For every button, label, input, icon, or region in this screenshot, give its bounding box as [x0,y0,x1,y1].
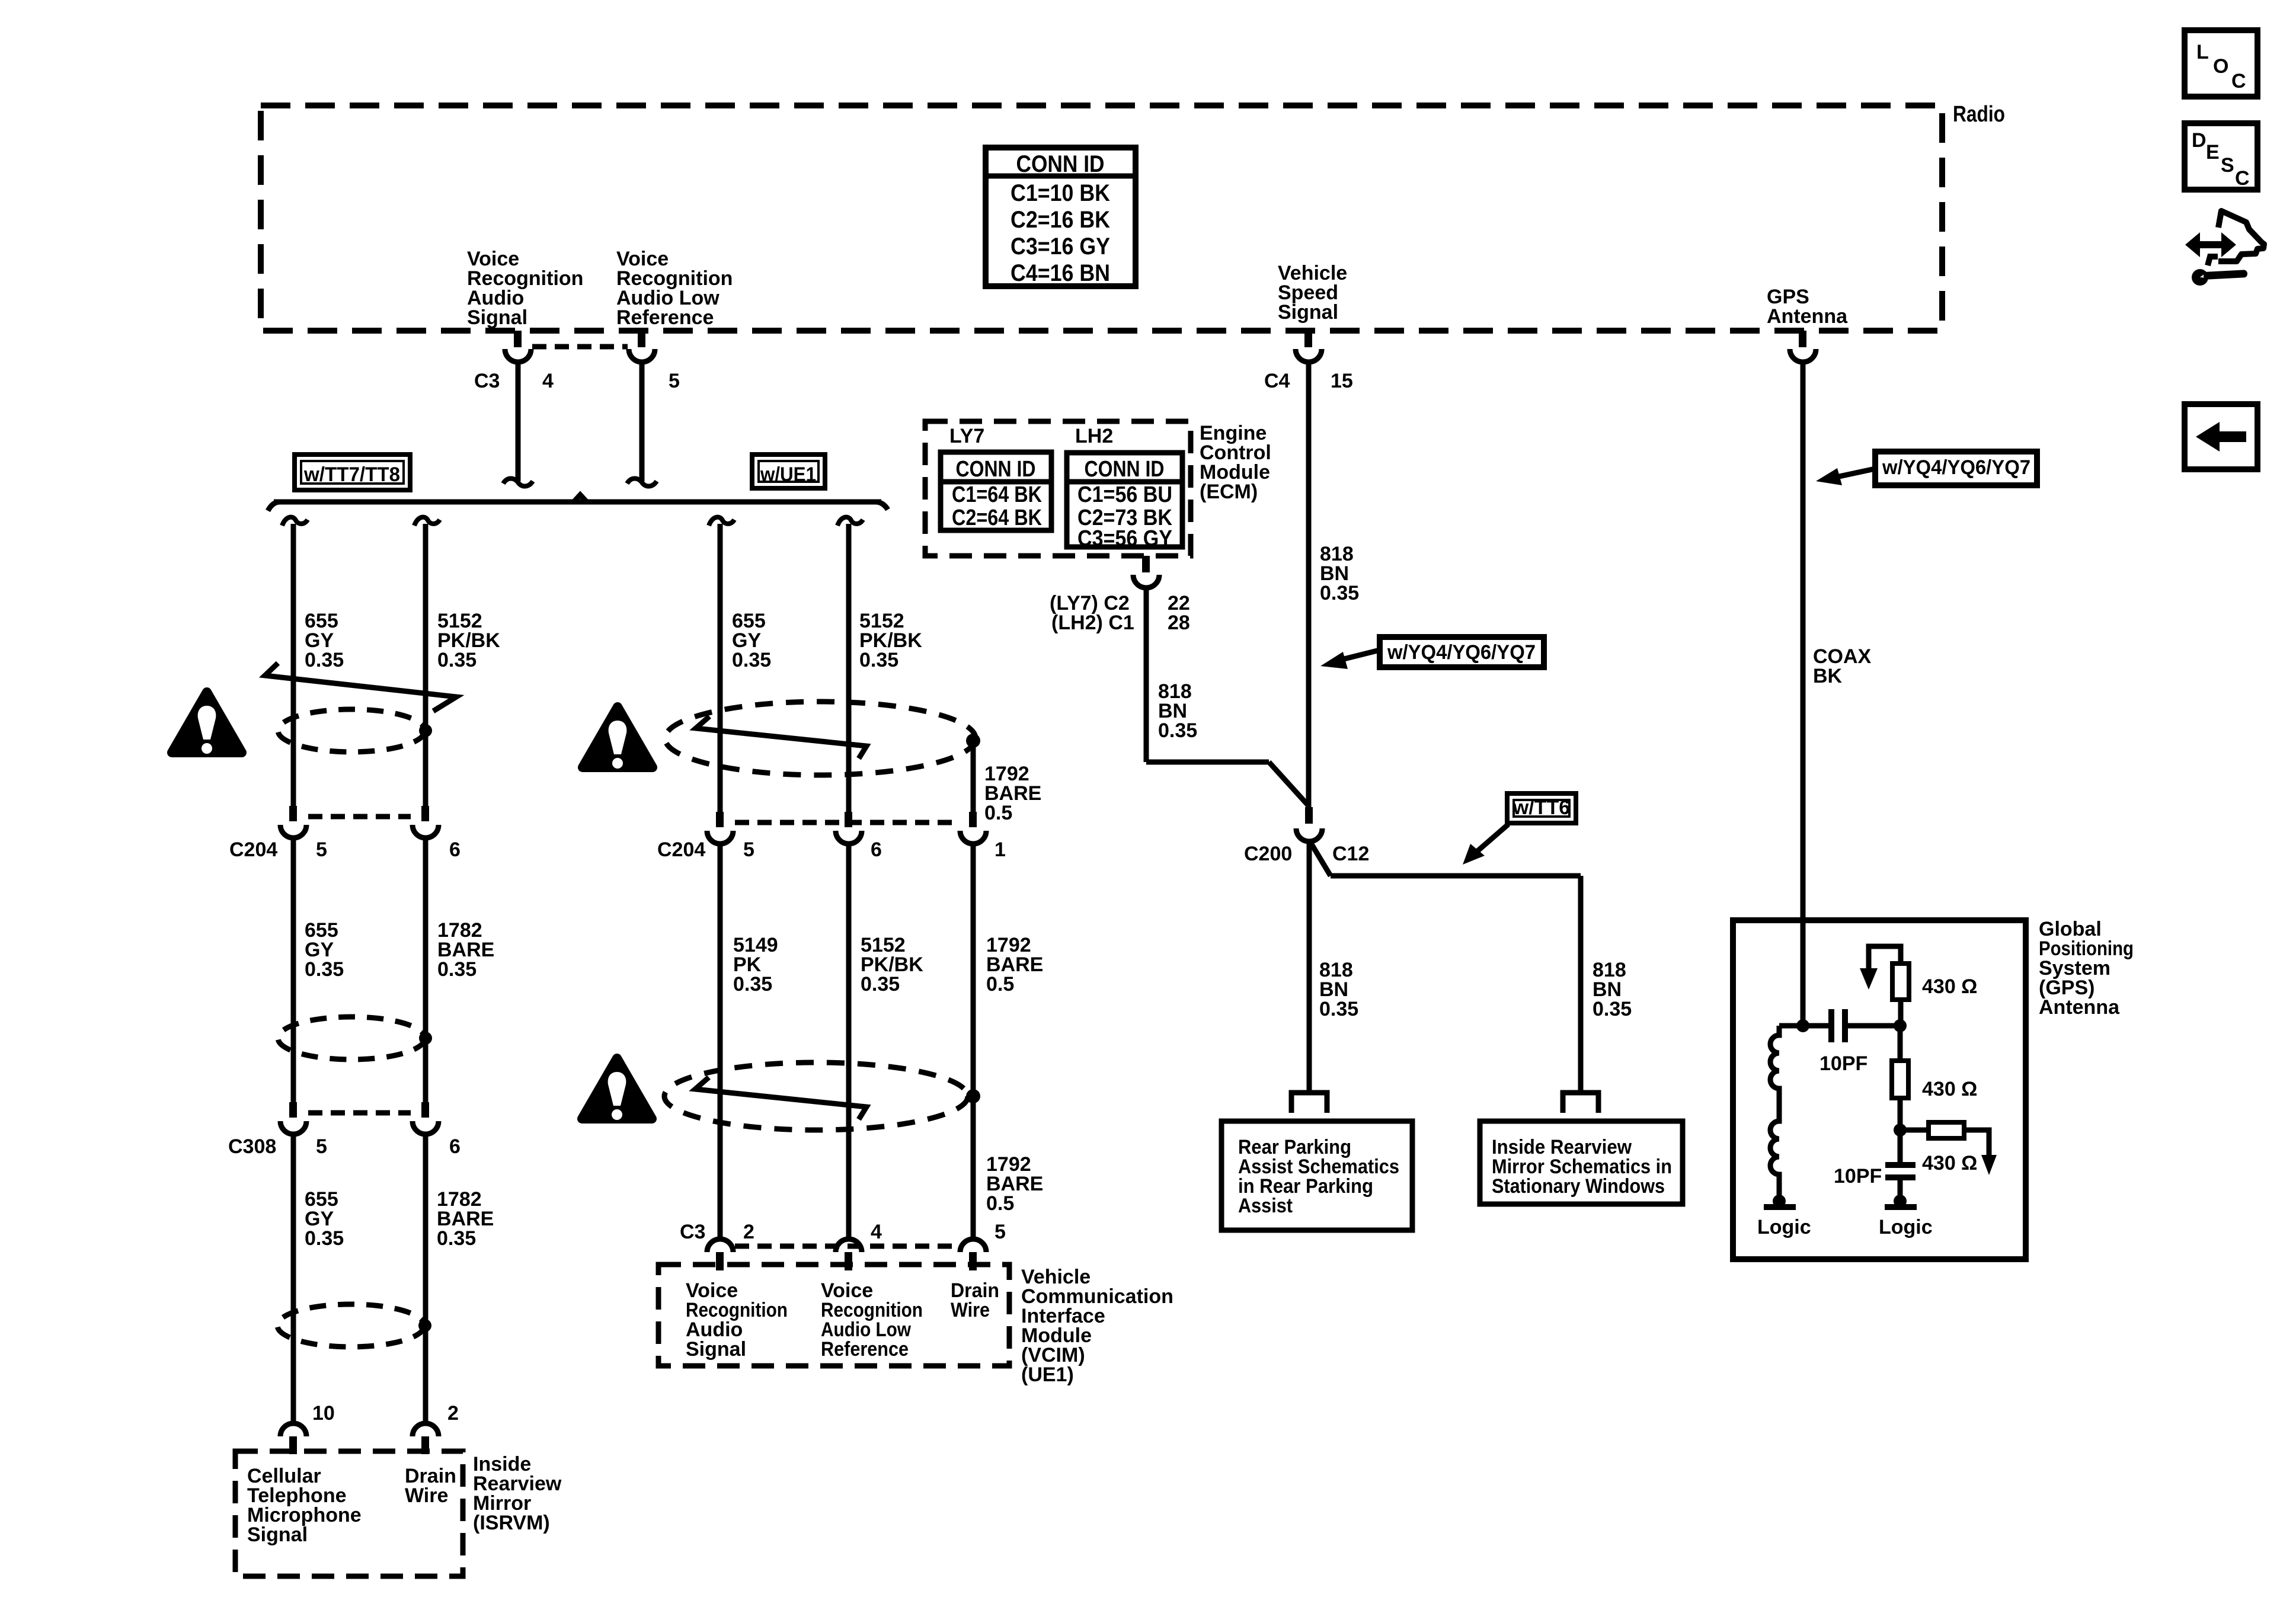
component Radio (dashed outline box) [261,105,1942,331]
svg-text:0.35: 0.35 [305,1227,344,1250]
junction dot node 2 [1894,1124,1907,1137]
svg-text:0.35: 0.35 [732,649,771,671]
ground Logic (left) [1764,1195,1796,1208]
svg-text:C3: C3 [474,370,500,392]
CONN ID table (Radio) [986,148,1136,286]
wire 1792 BARE segment C204..C3 [971,844,976,1239]
svg-text:D: D [2192,129,2207,152]
connector pin VCIM C3-4 [836,1239,862,1270]
svg-text:Signal: Signal [247,1523,308,1546]
dashed link VCIM C3 pins [735,1244,958,1249]
svg-text:w/TT6: w/TT6 [1512,796,1570,819]
svg-text:C: C [2235,167,2250,190]
pigtail hook at top of wire 655 GY (left) [282,517,308,526]
wire 655 GY segment radio..C204 (mid) [718,524,723,813]
svg-text:430 Ω: 430 Ω [1922,975,1977,998]
svg-text:(LH2) C1: (LH2) C1 [1051,612,1134,634]
connector pin ISRVM 10 [280,1423,306,1454]
svg-text:0.35: 0.35 [1593,998,1632,1020]
shield ellipse 2 (dashed) [278,1017,425,1060]
connector C200 C12 [1296,807,1322,841]
wire ECM diagonal to C200 junction [1269,762,1309,806]
harness option box w/UE1 [752,454,825,488]
svg-text:Reference: Reference [821,1338,909,1361]
svg-text:10PF: 10PF [1819,1052,1868,1075]
svg-text:0.35: 0.35 [1158,719,1197,742]
connector pin ECM C2/C1 [1133,556,1159,588]
connector C204 (mid) pin 5 [707,812,733,844]
resistor R2 430 ohm (vertical) [1892,1026,1908,1130]
wire 818 BN from ECM pin down [1144,587,1149,762]
connector C308 pin 6 [412,1102,439,1134]
component Global Positioning System GPS Antenna (box) [1733,920,2026,1259]
svg-text:BK: BK [1813,665,1843,687]
dashed link C204 mid [735,820,958,825]
svg-text:w/TT7/TT8: w/TT7/TT8 [303,463,400,486]
svg-text:0.35: 0.35 [861,973,900,996]
svg-text:CONN ID: CONN ID [956,457,1036,482]
svg-text:Radio: Radio [1953,102,2005,127]
wire radio pin5 down [639,362,645,481]
svg-text:Assist: Assist [1238,1195,1293,1217]
connector C308 pin 5 [280,1102,306,1134]
svg-text:C1=10 BK: C1=10 BK [1011,180,1110,206]
svg-text:C12: C12 [1332,843,1369,865]
junction dot on drain wire 1792 at ellipse 4 [966,734,980,748]
wire 5152 PK/BK segment radio..C204 (mid) [846,524,852,813]
component Inside Rearview Mirror ISRVM (dashed box) [235,1451,463,1576]
twisted-pair zigzag arrow 1 [265,663,456,711]
connector pin VCIM C3-2 [707,1239,733,1270]
shield ellipse 1 (dashed) [278,709,425,752]
svg-text:Signal: Signal [686,1338,746,1361]
svg-text:Antenna: Antenna [2039,996,2120,1019]
svg-text:C: C [2231,70,2246,92]
harness option box w/YQ4/YQ6/YQ7 (GPS) [1875,452,2037,485]
harness option box w/TT7/TT8 [295,454,410,490]
icon body-repair (double arrow, outline, wrench) [2185,211,2264,286]
svg-text:Logic: Logic [1757,1216,1811,1238]
connector pin radio C3 pin 5 [629,331,655,362]
svg-text:0.35: 0.35 [437,649,477,671]
connector pin radio C3 pin 4 [505,331,531,362]
junction dot on drain wire 1792 at ellipse 5 [966,1089,980,1103]
svg-text:(UE1): (UE1) [1021,1363,1074,1386]
svg-text:0.35: 0.35 [437,958,477,981]
wire radio pin4 down [516,362,521,481]
CONN ID table LH2 [1067,453,1182,551]
svg-text:C308: C308 [228,1135,276,1158]
component box Inside Rearview Mirror Schematics [1480,1121,1683,1204]
svg-text:LY7: LY7 [949,425,984,447]
svg-text:w/YQ4/YQ6/YQ7: w/YQ4/YQ6/YQ7 [1387,641,1536,664]
capacitor C2 10PF plates [1885,1165,1916,1177]
component Vehicle Communication Interface Module VCIM (dashed box) [658,1265,1009,1366]
junction dot on drain wire at ellipse 1 [419,724,432,737]
CONN ID table LY7 [941,452,1051,530]
ground Logic (right) [1885,1195,1917,1208]
wire 5149 PK segment C204..C3 [718,844,723,1239]
wire 1782 BARE segment C204..C308 [423,838,428,1103]
svg-text:0.35: 0.35 [733,973,772,996]
connector C204 (left) pin 6 [412,806,439,838]
svg-text:10: 10 [312,1402,335,1425]
wire node to capacitor C1 [1803,1023,1828,1029]
svg-text:Wire: Wire [951,1299,990,1321]
svg-text:4: 4 [871,1221,882,1243]
svg-text:6: 6 [871,838,882,861]
svg-text:CONN ID: CONN ID [1085,457,1165,482]
svg-text:C200: C200 [1244,843,1292,865]
warning triangle 2 [583,707,653,769]
wire 5152 PK/BK segment radio..C204 (left) [423,524,428,807]
svg-text:15: 15 [1331,370,1353,392]
capacitor C1 10PF plates [1831,1009,1845,1042]
junction dot coax entry node [1796,1019,1809,1032]
svg-text:2: 2 [447,1402,459,1425]
arrow from w/YQ4 box to VSS wire [1320,650,1380,669]
svg-text:(ISRVM): (ISRVM) [473,1512,550,1534]
wire 1782 BARE segment C308..ISRVM [423,1134,428,1422]
svg-text:C204: C204 [657,838,705,861]
resistor R1 430 ohm (vertical) [1860,946,1909,1026]
svg-text:Antenna: Antenna [1767,305,1848,328]
svg-text:C3: C3 [680,1221,705,1243]
inductor L1 (coil) [1770,1026,1779,1198]
svg-text:0.5: 0.5 [986,1192,1014,1215]
pigtail hook at bottom of pin4 wire [503,479,533,486]
connector C204 (mid) pin 1 [960,812,986,844]
svg-text:0.5: 0.5 [986,973,1014,996]
svg-text:0.35: 0.35 [1319,998,1358,1020]
busbar middle break caret [574,495,587,502]
svg-text:C2=16 BK: C2=16 BK [1011,207,1110,233]
svg-text:0.35: 0.35 [305,958,344,981]
twisted-pair zigzag arrow 3 [695,1077,866,1119]
svg-text:L: L [2196,41,2209,63]
svg-text:5: 5 [669,370,680,392]
svg-text:Signal: Signal [1278,301,1338,324]
svg-text:2: 2 [743,1221,754,1243]
svg-text:E: E [2206,141,2220,164]
svg-text:430 Ω: 430 Ω [1922,1152,1977,1174]
svg-text:Signal: Signal [467,306,527,329]
icon back-arrow box [2185,404,2257,469]
svg-text:C3=56 GY: C3=56 GY [1077,526,1172,551]
svg-text:Stationary Windows: Stationary Windows [1492,1175,1665,1198]
wire node 2 to capacitor C2 [1898,1130,1903,1163]
wire capacitor C1 to node 1 [1848,1023,1900,1029]
wire ECM horizontal run [1146,760,1269,765]
svg-text:Wire: Wire [405,1484,448,1507]
junction dot node 1 [1894,1019,1907,1032]
svg-text:0.35: 0.35 [859,649,898,671]
svg-text:C2=64 BK: C2=64 BK [952,505,1042,530]
svg-text:C3=16 GY: C3=16 GY [1011,233,1110,260]
svg-text:4: 4 [542,370,554,392]
twisted-pair zigzag arrow 2 [696,716,866,758]
wire 655 GY segment radio..C204 (left) [291,524,296,807]
busbar left end tick [268,502,280,511]
arrow from w/YQ4 box (GPS) to coax wire [1816,468,1875,485]
svg-text:5: 5 [316,1135,327,1158]
connector pin radio C4 pin 15 (vehicle speed) [1296,331,1322,362]
wire down to inside rearview [1578,876,1584,1094]
svg-text:Reference: Reference [616,306,714,329]
svg-text:w/YQ4/YQ6/YQ7: w/YQ4/YQ6/YQ7 [1882,456,2030,479]
svg-text:430 Ω: 430 Ω [1922,1078,1977,1100]
svg-text:0.5: 0.5 [984,802,1012,824]
wire diagonal C200 to inside rearview run [1309,840,1331,876]
connector pin radio GPS antenna [1790,331,1816,362]
pigtail hook at top of wire 655 GY (mid) [709,517,734,526]
dashed link C204 left [308,814,411,820]
svg-text:O: O [2213,55,2228,78]
svg-text:28: 28 [1168,612,1190,634]
component Engine Control Module ECM (dashed box) [925,421,1191,556]
svg-text:1: 1 [994,838,1006,861]
connector C204 (mid) pin 6 [836,812,862,844]
icon LOC box [2185,30,2257,97]
wire 1792 BARE segment dot..C204 [971,741,976,813]
wire 818 BN vehicle speed signal radio..C200 [1306,362,1312,807]
connector C204 (left) pin 5 [280,806,306,838]
warning triangle 1 [172,692,242,754]
terminal staple inside rearview [1563,1093,1598,1113]
svg-text:C204: C204 [229,838,277,861]
dashed link C308 [308,1110,411,1116]
wire 818 BN C200..rear parking [1307,840,1312,1094]
shield ellipse 3 (dashed) [277,1304,424,1347]
harness option box w/TT6 [1507,793,1576,823]
svg-text:Logic: Logic [1879,1216,1933,1238]
connector pin VCIM C3-5 [960,1239,986,1270]
svg-text:0.35: 0.35 [305,649,344,671]
svg-text:C4: C4 [1264,370,1290,392]
svg-text:5: 5 [316,838,327,861]
svg-text:6: 6 [449,1135,461,1158]
harness bundle bar (busbar) [274,500,881,505]
svg-text:0.35: 0.35 [437,1227,476,1250]
svg-text:5: 5 [743,838,754,861]
svg-text:CONN ID: CONN ID [1016,151,1105,177]
svg-text:(ECM): (ECM) [1200,481,1258,503]
svg-text:10PF: 10PF [1834,1165,1882,1188]
wire 655 GY segment C204..C308 [291,838,296,1103]
svg-text:C4=16 BN: C4=16 BN [1011,260,1110,286]
svg-text:6: 6 [449,838,461,861]
svg-text:w/UE1: w/UE1 [760,463,816,486]
shield ellipse 4 (dashed) [665,702,976,775]
wire node to inductor [1779,1023,1803,1029]
svg-text:S: S [2221,154,2234,177]
svg-text:0.35: 0.35 [1320,582,1359,604]
resistor R3 430 ohm (horizontal) [1900,1122,1997,1175]
arrow from w/TT6 box to wire [1463,824,1508,865]
wire horizontal run to inside rearview [1331,873,1581,879]
pigtail hook at bottom of pin5 wire [627,479,657,486]
junction dot on drain wire at ellipse 3 [418,1319,431,1332]
terminal staple rear parking [1291,1093,1327,1113]
dashed link between radio pins 4 and 5 [532,344,628,350]
warning triangle 3 [582,1058,652,1120]
svg-text:5: 5 [994,1221,1006,1243]
wire capacitor C2 to ground [1898,1177,1903,1198]
shield ellipse 5 (dashed) [664,1062,968,1130]
icon DESC box [2185,123,2257,190]
pigtail hook at top of wire 5152 PK/BK (mid) [837,517,863,526]
pigtail hook at top of wire 5152 PK/BK (left) [414,517,440,526]
svg-text:C1=56 BU: C1=56 BU [1077,482,1172,507]
busbar right end tick [875,502,888,510]
junction dot on drain wire at ellipse 2 [419,1032,432,1045]
wire COAX BK radio..GPS antenna [1801,362,1806,1026]
component box Rear Parking Assist Schematics [1221,1121,1412,1230]
connector pin ISRVM 2 [412,1423,439,1454]
wire 5152 PK/BK segment C204..C3 [846,844,852,1239]
harness option box w/YQ4/YQ6/YQ7 (VSS) [1380,637,1544,667]
svg-text:LH2: LH2 [1075,425,1113,447]
wire 655 GY segment C308..ISRVM [291,1134,296,1422]
svg-text:C1=64 BK: C1=64 BK [952,482,1042,507]
